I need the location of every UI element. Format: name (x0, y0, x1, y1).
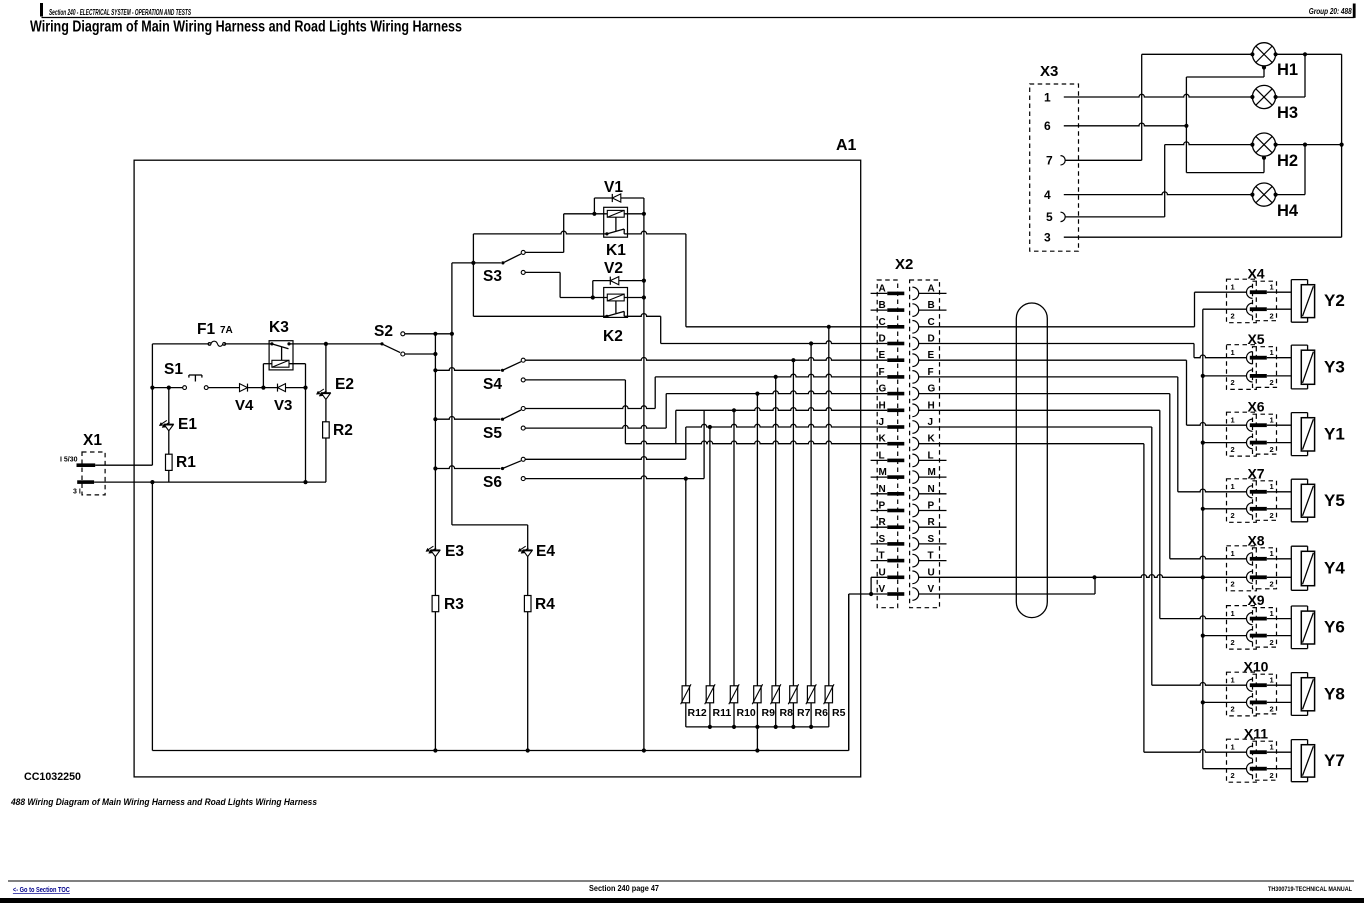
svg-text:M: M (879, 467, 887, 478)
svg-text:J: J (879, 417, 885, 428)
svg-text:Section 240 - ELECTRICAL SYSTE: Section 240 - ELECTRICAL SYSTEM - OPERAT… (49, 8, 191, 17)
svg-text:V1: V1 (604, 179, 623, 196)
svg-text:488 Wiring Diagram of Main Wir: 488 Wiring Diagram of Main Wiring Harnes… (10, 797, 317, 808)
svg-text:1: 1 (1270, 676, 1274, 685)
svg-text:E1: E1 (178, 416, 197, 433)
svg-text:1: 1 (1270, 283, 1274, 292)
svg-text:CC1032250: CC1032250 (24, 771, 81, 783)
svg-text:X3: X3 (1040, 63, 1058, 80)
svg-text:2: 2 (1231, 311, 1235, 320)
svg-text:F1: F1 (197, 321, 215, 338)
svg-text:2: 2 (1270, 445, 1274, 454)
svg-text:B: B (879, 300, 886, 311)
svg-text:1: 1 (1270, 549, 1274, 558)
svg-text:1: 1 (1270, 609, 1274, 618)
svg-text:2: 2 (1270, 511, 1274, 520)
svg-text:R10: R10 (737, 707, 756, 719)
svg-text:Y2: Y2 (1324, 291, 1345, 310)
svg-text:1: 1 (1231, 283, 1235, 292)
svg-text:L: L (879, 450, 885, 461)
svg-text:R12: R12 (688, 707, 707, 719)
svg-text:I 5/30: I 5/30 (60, 457, 78, 464)
svg-text:H3: H3 (1277, 104, 1298, 122)
svg-text:G: G (879, 384, 887, 395)
svg-text:K2: K2 (603, 328, 623, 345)
svg-text:1: 1 (1231, 482, 1235, 491)
svg-text:Y1: Y1 (1324, 424, 1345, 443)
svg-text:R7: R7 (797, 707, 811, 719)
svg-text:1: 1 (1270, 348, 1274, 357)
svg-text:X9: X9 (1247, 592, 1264, 608)
svg-text:1: 1 (1231, 743, 1235, 752)
svg-text:1: 1 (1231, 549, 1235, 558)
svg-text:F: F (879, 367, 885, 378)
svg-text:X8: X8 (1247, 532, 1264, 548)
svg-text:X6: X6 (1247, 399, 1264, 415)
svg-text:1: 1 (1270, 416, 1274, 425)
svg-text:R4: R4 (535, 596, 555, 613)
svg-text:S3: S3 (483, 268, 502, 285)
svg-text:2: 2 (1270, 580, 1274, 589)
svg-text:P: P (879, 501, 886, 512)
svg-text:C: C (879, 317, 886, 328)
svg-text:2: 2 (1231, 378, 1235, 387)
svg-text:1: 1 (1231, 676, 1235, 685)
svg-text:E2: E2 (335, 376, 354, 393)
svg-text:2: 2 (1270, 311, 1274, 320)
svg-text:S5: S5 (483, 425, 502, 442)
svg-text:X1: X1 (83, 432, 102, 449)
svg-text:Group 20: 488: Group 20: 488 (1309, 7, 1352, 16)
svg-text:1: 1 (1231, 348, 1235, 357)
svg-text:S4: S4 (483, 376, 502, 393)
svg-text:<- Go to Section TOC: <- Go to Section TOC (13, 887, 70, 894)
svg-text:V4: V4 (235, 397, 254, 414)
svg-text:4: 4 (1044, 188, 1051, 202)
svg-text:S1: S1 (164, 361, 183, 378)
svg-text:X10: X10 (1244, 659, 1269, 675)
svg-text:X2: X2 (895, 256, 913, 273)
svg-text:2: 2 (1231, 445, 1235, 454)
svg-text:2: 2 (1231, 511, 1235, 520)
svg-text:S6: S6 (483, 474, 502, 491)
svg-text:2: 2 (1270, 378, 1274, 387)
svg-text:E4: E4 (536, 543, 555, 560)
svg-text:R3: R3 (444, 596, 464, 613)
svg-text:H2: H2 (1277, 152, 1298, 170)
svg-text:Y5: Y5 (1324, 491, 1345, 510)
svg-text:R5: R5 (832, 707, 846, 719)
svg-text:R11: R11 (713, 707, 732, 719)
svg-text:T: T (879, 551, 885, 562)
svg-text:X4: X4 (1247, 266, 1264, 282)
svg-text:5: 5 (1046, 210, 1053, 224)
svg-text:X7: X7 (1247, 465, 1264, 481)
svg-text:2: 2 (1231, 771, 1235, 780)
svg-text:2: 2 (1231, 580, 1235, 589)
svg-text:Y3: Y3 (1324, 357, 1345, 376)
svg-text:1: 1 (1231, 609, 1235, 618)
svg-text:A1: A1 (836, 137, 857, 154)
svg-text:7: 7 (1046, 154, 1053, 168)
svg-text:1: 1 (1044, 90, 1051, 104)
svg-text:K1: K1 (606, 242, 626, 259)
svg-text:R2: R2 (333, 422, 353, 439)
svg-text:Y8: Y8 (1324, 684, 1345, 703)
svg-text:3 I: 3 I (73, 489, 81, 496)
svg-text:H4: H4 (1277, 202, 1299, 220)
svg-text:2: 2 (1270, 638, 1274, 647)
svg-text:R9: R9 (762, 707, 776, 719)
svg-text:3: 3 (1044, 231, 1051, 245)
svg-text:A: A (879, 283, 886, 294)
svg-text:S: S (879, 534, 886, 545)
svg-text:X11: X11 (1244, 726, 1268, 742)
svg-text:2: 2 (1270, 705, 1274, 714)
svg-text:E3: E3 (445, 543, 464, 560)
svg-text:N: N (879, 484, 886, 495)
svg-text:H1: H1 (1277, 61, 1298, 79)
svg-text:2: 2 (1231, 638, 1235, 647)
svg-text:1: 1 (1231, 416, 1235, 425)
svg-text:K3: K3 (269, 319, 289, 336)
svg-text:R6: R6 (815, 707, 829, 719)
svg-text:K: K (879, 434, 887, 445)
svg-text:V3: V3 (274, 397, 292, 414)
svg-text:TH300719-TECHNICAL MANUAL: TH300719-TECHNICAL MANUAL (1268, 887, 1352, 893)
svg-text:X5: X5 (1247, 331, 1264, 347)
svg-text:2: 2 (1270, 771, 1274, 780)
svg-text:7A: 7A (220, 325, 233, 336)
svg-text:S2: S2 (374, 323, 393, 340)
svg-text:Section 240 page 47: Section 240 page 47 (589, 883, 659, 893)
svg-text:H: H (879, 400, 886, 411)
svg-text:R: R (879, 517, 887, 528)
svg-text:1: 1 (1270, 482, 1274, 491)
svg-text:R1: R1 (176, 454, 196, 471)
svg-text:Wiring Diagram of Main Wiring: Wiring Diagram of Main Wiring Harness an… (30, 19, 462, 36)
svg-text:Y6: Y6 (1324, 618, 1345, 637)
svg-text:2: 2 (1231, 705, 1235, 714)
svg-text:6: 6 (1044, 119, 1051, 133)
svg-text:R8: R8 (780, 707, 794, 719)
svg-text:D: D (879, 334, 886, 345)
svg-text:1: 1 (1270, 743, 1274, 752)
svg-text:E: E (879, 350, 886, 361)
svg-text:Y4: Y4 (1324, 559, 1345, 578)
svg-text:V2: V2 (604, 260, 623, 277)
svg-text:Y7: Y7 (1324, 751, 1345, 770)
